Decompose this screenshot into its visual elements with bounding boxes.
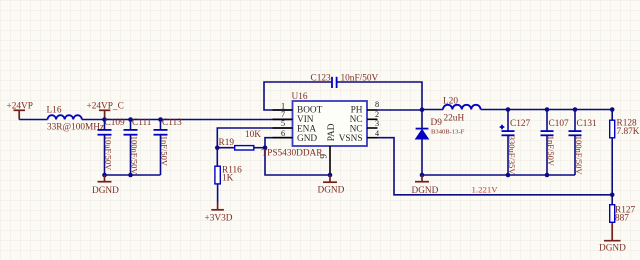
capacitor C113 xyxy=(154,118,183,175)
capacitor C107 xyxy=(541,110,569,176)
wire ENA pulldown node xyxy=(217,128,292,166)
svg-text:330uF/35V: 330uF/35V xyxy=(507,136,517,176)
wire output ground rail xyxy=(422,174,575,176)
pin 6 GND xyxy=(273,129,293,138)
node junction rail/C127 xyxy=(506,107,511,112)
capacitor C111 xyxy=(124,118,152,175)
node junction rail/C111 xyxy=(128,117,133,122)
power port +24VP xyxy=(7,101,33,119)
node junction PH/C123/D9 xyxy=(420,107,425,112)
ground DGND bottom xyxy=(599,223,626,253)
node junction D9 bottom xyxy=(420,173,425,178)
svg-text:DGND: DGND xyxy=(599,243,626,253)
ground DGND output xyxy=(412,175,439,196)
pin 3 NC xyxy=(367,119,379,128)
pin 5 ENA xyxy=(273,119,293,128)
svg-text:TPS5430DDAR: TPS5430DDAR xyxy=(262,148,324,158)
wire +24VP to L16 xyxy=(19,119,47,121)
svg-text:2: 2 xyxy=(375,110,379,119)
node junction rail/C109 xyxy=(102,117,107,122)
wire PH to L20 xyxy=(378,109,423,111)
svg-text:NC: NC xyxy=(350,124,363,134)
svg-text:C109: C109 xyxy=(105,118,125,128)
svg-text:8: 8 xyxy=(375,100,379,109)
svg-text:22uH: 22uH xyxy=(444,114,465,124)
wire L20 to output rail xyxy=(481,109,613,111)
pin 8 PH xyxy=(367,100,379,110)
svg-text:U16: U16 xyxy=(292,92,308,102)
op-amp U16 body xyxy=(262,92,368,158)
node junction feedback/R127 xyxy=(610,193,615,198)
svg-text:DGND: DGND xyxy=(318,185,345,195)
power port +24VP_C xyxy=(87,101,124,119)
svg-text:33R@100MHz: 33R@100MHz xyxy=(47,122,104,132)
svg-text:10K: 10K xyxy=(245,130,261,140)
svg-text:D9: D9 xyxy=(431,118,443,128)
svg-text:887: 887 xyxy=(615,214,629,224)
svg-text:6: 6 xyxy=(281,129,285,138)
inductor L16 xyxy=(47,106,105,133)
wire C123 to PH node xyxy=(337,82,422,110)
svg-text:L16: L16 xyxy=(47,106,62,116)
capacitor C123 xyxy=(311,74,379,88)
wire VSNS feedback xyxy=(378,138,613,195)
svg-text:100nF/50V: 100nF/50V xyxy=(130,136,140,176)
inductor L20 xyxy=(443,97,481,124)
svg-text:C131: C131 xyxy=(577,119,597,129)
pin 1 BOOT xyxy=(273,102,293,111)
svg-text:+3V3D: +3V3D xyxy=(205,214,233,224)
svg-text:10uF/50V: 10uF/50V xyxy=(104,136,114,171)
pin 4 VSNS xyxy=(367,129,379,138)
svg-text:C111: C111 xyxy=(132,118,152,128)
node junction PAD/ground xyxy=(328,173,333,178)
ground DGND pad xyxy=(318,175,345,195)
svg-text:ENA: ENA xyxy=(297,124,316,134)
resistor R116 xyxy=(215,166,242,203)
svg-text:7: 7 xyxy=(281,110,285,119)
svg-text:C127: C127 xyxy=(510,119,530,129)
svg-text:3: 3 xyxy=(375,119,379,128)
node junction C109 bottom xyxy=(102,173,107,178)
node junction rail/R128 xyxy=(610,107,615,112)
svg-text:L20: L20 xyxy=(443,97,458,107)
power port +3V3D xyxy=(205,203,233,224)
pin 7 VIN xyxy=(273,110,293,119)
wire GND pin to pad rail xyxy=(265,138,330,175)
resistor R19 xyxy=(217,130,265,150)
wire BOOT to C123 xyxy=(264,82,331,110)
pin 9 PAD xyxy=(329,146,331,175)
wire input ground rail xyxy=(105,174,161,176)
pin 2 NC xyxy=(367,110,379,119)
svg-text:1.221V: 1.221V xyxy=(472,185,499,195)
capacitor C127 xyxy=(500,110,531,176)
svg-text:R19: R19 xyxy=(219,138,235,148)
svg-text:B340B-13-F: B340B-13-F xyxy=(431,129,465,136)
svg-text:C113: C113 xyxy=(162,118,182,128)
svg-text:VSNS: VSNS xyxy=(339,134,363,144)
capacitor C109 xyxy=(98,118,125,175)
svg-text:GND: GND xyxy=(297,134,317,144)
svg-text:DGND: DGND xyxy=(92,186,119,196)
svg-text:1K: 1K xyxy=(222,173,234,183)
node junction ENA/R19 xyxy=(215,145,220,150)
node junction C127 bottom xyxy=(506,173,511,178)
wire L16 to VIN rail xyxy=(82,119,293,121)
node junction C111 bottom xyxy=(128,173,133,178)
svg-text:9: 9 xyxy=(320,154,330,159)
node junction R19/GND wire xyxy=(263,145,268,150)
diode D9 xyxy=(416,110,465,176)
resistor R128 xyxy=(610,110,640,195)
svg-text:PAD: PAD xyxy=(327,123,337,141)
svg-text:1nF/50V: 1nF/50V xyxy=(546,136,556,167)
svg-text:7.87K: 7.87K xyxy=(617,127,640,137)
svg-text:4: 4 xyxy=(375,129,379,138)
ground DGND input xyxy=(92,175,119,196)
resistor R127 xyxy=(610,195,636,224)
node junction rail/C113 xyxy=(158,117,163,122)
node junction rail/C107 xyxy=(545,107,550,112)
svg-text:C107: C107 xyxy=(549,119,569,129)
node junction C107 bottom xyxy=(545,173,550,178)
svg-text:100nF/50V: 100nF/50V xyxy=(574,136,584,176)
svg-text:1nF/50V: 1nF/50V xyxy=(160,136,170,167)
svg-text:5: 5 xyxy=(281,119,285,128)
capacitor C131 xyxy=(569,110,597,176)
node junction rail/C131 xyxy=(573,107,578,112)
svg-text:C123: C123 xyxy=(311,74,331,84)
